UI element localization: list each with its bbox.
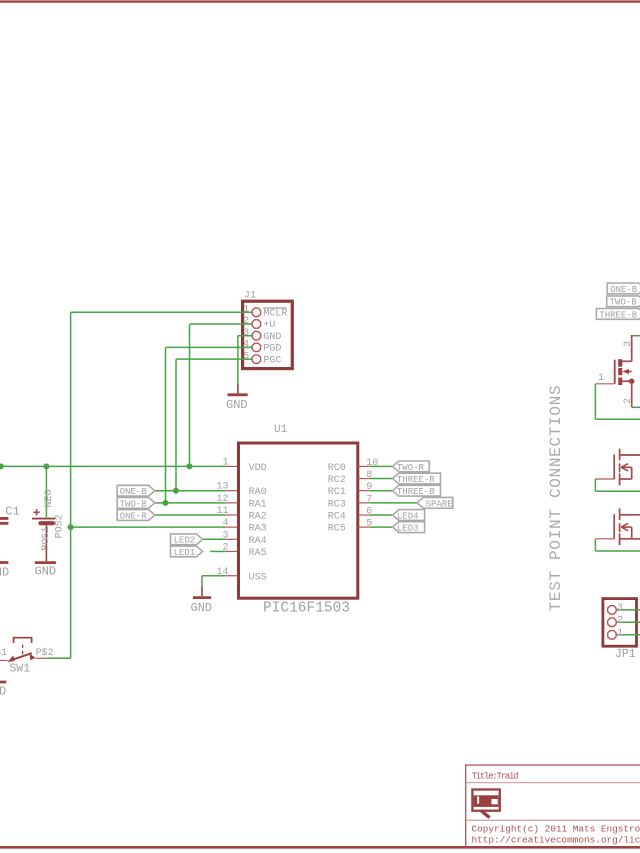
- transistor Q3 gate stub: [595, 538, 614, 540]
- svg-text:RC0: RC0: [328, 463, 346, 474]
- svg-text:PIC16F1503: PIC16F1503: [263, 600, 350, 616]
- net label ONE-B top right: [607, 283, 640, 295]
- J1 pin 4 stub: [244, 346, 252, 348]
- svg-text:1: 1: [598, 373, 604, 384]
- svg-text:LED3: LED3: [397, 524, 419, 534]
- title block divider 2: [466, 819, 640, 821]
- svg-text:P$1: P$1: [0, 647, 7, 659]
- transistor Q2 gate stub: [595, 478, 614, 480]
- net label LED3: [393, 522, 425, 534]
- svg-text:+U: +U: [263, 320, 275, 331]
- svg-text:THREE-B: THREE-B: [397, 487, 435, 497]
- svg-text:RA1: RA1: [249, 499, 267, 510]
- svg-text:JP1: JP1: [615, 648, 636, 661]
- wire VDD rail: [0, 465, 226, 467]
- wire J1 pin3 GND vertical: [237, 336, 239, 384]
- wire TWO-R: [370, 465, 394, 467]
- ground under SW1: [0, 682, 6, 699]
- net label LED2: [171, 534, 203, 546]
- svg-text:PGD: PGD: [263, 344, 281, 355]
- U1 left pin stubs: [226, 465, 237, 467]
- svg-text:Title:Traid: Title:Traid: [472, 771, 519, 781]
- net label THREE-B: [393, 485, 441, 497]
- svg-text:9: 9: [366, 482, 372, 493]
- net label TWO-B: [117, 497, 155, 509]
- switch SW1 actuator dashed link: [22, 645, 24, 657]
- wire J1 pin4 PGD horizontal: [166, 346, 252, 348]
- svg-text:RA0: RA0: [249, 487, 267, 498]
- J1 pin pads 1-5: [252, 308, 260, 316]
- junction VDD rail left: [0, 463, 4, 469]
- wire J1 pin1 MCLR: [71, 311, 252, 313]
- switch SW1 stub left: [0, 660, 8, 662]
- switch SW1 wire right: [46, 657, 70, 659]
- wire J1 pin5 PGC horizontal: [176, 358, 252, 360]
- IC U1 box PIC16F1503: [239, 443, 358, 598]
- svg-text:http://creativecommons.org/lic: http://creativecommons.org/licenses/by-s…: [472, 835, 640, 846]
- svg-text:C1: C1: [5, 504, 19, 518]
- transistor Q3 channel segments: [619, 508, 621, 520]
- junction MCLR RA3: [68, 524, 74, 530]
- svg-text:2: 2: [617, 616, 623, 627]
- svg-text:GND: GND: [0, 566, 9, 580]
- connector JP1 box: [603, 599, 637, 647]
- transistor Q1 drain bar: [618, 359, 622, 367]
- svg-text:LED2: LED2: [174, 536, 196, 546]
- transistor Q3 gate line: [613, 514, 615, 539]
- transistor Q2 drain wire: [620, 454, 640, 456]
- svg-text:POS1: POS1: [41, 527, 52, 551]
- svg-text:3: 3: [617, 603, 623, 614]
- svg-text:10: 10: [366, 458, 378, 469]
- wire MCLR net J1.1 to SW1 vertical: [70, 312, 72, 658]
- svg-text:J1: J1: [244, 289, 257, 301]
- battery positive lead: [45, 466, 47, 517]
- junction PGD TWO-B: [163, 500, 169, 506]
- title block divider 1: [466, 782, 640, 784]
- ground under U1 USS: [191, 587, 213, 616]
- wire J1 pin3 GND horizontal: [238, 335, 252, 337]
- svg-text:RC3: RC3: [328, 499, 346, 510]
- wire THREE-R: [370, 478, 394, 480]
- battery plus sign: [34, 509, 40, 515]
- battery plates: [32, 519, 55, 524]
- svg-text:MCLR: MCLR: [263, 309, 287, 320]
- net label TWO-B top right: [607, 296, 640, 308]
- transistor Q1 source lead: [631, 381, 633, 407]
- switch SW1 stub right: [36, 657, 46, 659]
- svg-text:SW1: SW1: [9, 663, 30, 676]
- svg-text:LED1: LED1: [174, 548, 196, 558]
- transistor Q2 bulk lead: [631, 467, 633, 479]
- wire J1 pin2 +U vertical: [189, 324, 191, 466]
- net label THREE-R: [393, 473, 441, 485]
- battery negative lead: [45, 525, 47, 561]
- svg-text:8: 8: [366, 470, 372, 481]
- svg-text:TWO-B: TWO-B: [120, 499, 148, 509]
- svg-text:RA3: RA3: [249, 524, 267, 535]
- svg-text:VDD: VDD: [249, 463, 267, 474]
- svg-text:3: 3: [623, 341, 634, 347]
- svg-text:GND: GND: [226, 398, 248, 412]
- svg-text:2: 2: [243, 316, 249, 327]
- transistor Q1 drain connect: [622, 360, 631, 362]
- wire RA3 row: [71, 526, 226, 528]
- svg-text:1: 1: [243, 305, 249, 316]
- svg-text:6: 6: [366, 507, 372, 518]
- transistor Q2 gate line: [613, 455, 615, 480]
- wire LED1 row: [210, 550, 226, 552]
- transistor Q2 channel segments: [619, 449, 621, 461]
- J1 pin 2 stub: [244, 323, 252, 325]
- transistor Q3 drain wire: [620, 514, 640, 516]
- svg-text:RC1: RC1: [328, 487, 346, 498]
- wire USS to GND horizontal: [202, 575, 226, 577]
- wire J1 pin5 PGC vertical: [175, 359, 177, 491]
- transistor Q2 gate wire: [594, 479, 596, 491]
- switch SW1 contact right: [30, 654, 36, 660]
- svg-text:ONE-B: ONE-B: [610, 285, 638, 295]
- capacitor C1: [0, 504, 20, 523]
- svg-text:4: 4: [243, 340, 249, 351]
- wire SPARE: [370, 502, 418, 504]
- svg-text:1: 1: [617, 628, 623, 639]
- wire J1 pin2 +U horizontal: [190, 323, 252, 325]
- J1 pin 5 stub: [244, 358, 252, 360]
- svg-text:POS2: POS2: [54, 514, 65, 538]
- svg-text:ONE-B: ONE-B: [120, 487, 148, 497]
- svg-text:LED4: LED4: [397, 511, 419, 521]
- net label SPARE: [417, 497, 453, 509]
- svg-text:5: 5: [243, 351, 249, 362]
- transistor Q1 gate wire vertical: [594, 384, 596, 419]
- svg-text:SPARE: SPARE: [426, 499, 453, 509]
- J1 MCLR overline: [263, 307, 287, 309]
- switch SW1 actuator bracket: [13, 638, 33, 643]
- wire J1 pin4 PGD vertical: [165, 347, 167, 502]
- transistor Q3 source tick: [619, 539, 621, 545]
- title block frame: [465, 765, 640, 847]
- svg-text:GND: GND: [0, 685, 6, 699]
- svg-text:3: 3: [243, 328, 249, 339]
- junction J1 pin2 to VDD rail: [187, 463, 193, 469]
- transistor Q1 drain wire: [632, 335, 640, 337]
- svg-text:PGC: PGC: [263, 355, 281, 366]
- transistor Q1 source connect: [622, 380, 631, 382]
- ground under J1: [226, 384, 248, 412]
- svg-text:U1: U1: [274, 424, 288, 436]
- logo smallroomlabs: [472, 790, 499, 818]
- svg-text:RA5: RA5: [249, 548, 267, 559]
- junction Q1 source bulk: [629, 379, 634, 384]
- svg-text:NEG: NEG: [44, 489, 55, 507]
- wire ONE-R row: [155, 514, 226, 516]
- net label LED4: [393, 510, 425, 522]
- J1 pin 3 stub: [244, 335, 252, 337]
- switch SW1 contact left: [7, 655, 14, 662]
- svg-text:TEST POINT CONNECTIONS: TEST POINT CONNECTIONS: [547, 385, 565, 611]
- svg-text:RA4: RA4: [249, 536, 267, 547]
- transistor Q1 body bar: [618, 368, 622, 375]
- ground under battery: [35, 563, 57, 579]
- page border top: [0, 0, 640, 2]
- junction PGC ONE-B: [173, 488, 179, 494]
- svg-text:THREE-R: THREE-R: [397, 475, 435, 485]
- JP1 wires: [617, 609, 640, 611]
- svg-text:Copyright(c) 2011 Mats Engstro: Copyright(c) 2011 Mats Engstrom: [472, 824, 640, 835]
- transistor Q2 bulk arrow: [621, 464, 628, 468]
- wire LED2 row: [203, 538, 226, 540]
- svg-text:RA2: RA2: [249, 512, 267, 523]
- transistor Q3 bulk arrow: [621, 524, 628, 528]
- transistor Q1 source bar: [618, 378, 622, 386]
- net label THREE-B top right: [596, 309, 640, 321]
- transistor Q2 source tick: [619, 479, 621, 485]
- svg-text:RC4: RC4: [328, 512, 346, 523]
- svg-text:ONE-R: ONE-R: [120, 511, 148, 521]
- transistor Q3 source bar: [620, 538, 640, 540]
- JP1 pin pads: [608, 606, 616, 614]
- svg-text:RC2: RC2: [328, 475, 346, 486]
- transistor Q1 bulk arrow: [623, 369, 629, 374]
- connector J1 box: [243, 301, 293, 368]
- transistor Q1 gate line: [614, 360, 616, 384]
- svg-text:2: 2: [623, 398, 634, 404]
- wire LED4: [370, 514, 394, 516]
- svg-text:TWO-B: TWO-B: [610, 298, 638, 308]
- svg-text:GND: GND: [263, 332, 281, 343]
- page border bottom: [0, 846, 640, 849]
- wire THREE-B: [370, 490, 394, 492]
- wire USS to GND vertical: [201, 576, 203, 587]
- J1 pin 1 stub: [244, 311, 252, 313]
- net label LED1: [171, 546, 203, 558]
- switch SW1 lever: [11, 653, 32, 660]
- ground under C1: [0, 563, 9, 580]
- U1 right pin stubs: [358, 465, 370, 467]
- transistor Q2 source bar: [620, 478, 632, 480]
- svg-text:TWO-R: TWO-R: [397, 463, 425, 473]
- svg-text:GND: GND: [191, 601, 213, 615]
- svg-text:5: 5: [366, 519, 372, 530]
- svg-text:GND: GND: [35, 565, 57, 579]
- transistor Q1 source wire: [632, 406, 640, 408]
- transistor Q1 gate stub: [595, 383, 614, 385]
- svg-text:RC5: RC5: [328, 524, 346, 535]
- wire LED3: [370, 526, 394, 528]
- svg-text:P$2: P$2: [36, 647, 54, 659]
- transistor Q1 bulk connect: [629, 371, 632, 373]
- svg-text:USS: USS: [249, 572, 267, 583]
- net label TWO-R: [393, 461, 430, 473]
- net label ONE-R: [117, 510, 155, 522]
- transistor Q1 drain lead: [631, 335, 633, 361]
- wire TWO-B row: [155, 502, 226, 504]
- transistor Q3 bulk lead: [631, 527, 633, 539]
- junction battery positive: [43, 463, 49, 469]
- svg-text:THREE-B: THREE-B: [599, 310, 637, 320]
- svg-text:7: 7: [366, 494, 372, 505]
- net label ONE-B: [117, 485, 155, 497]
- transistor Q3 gate wire: [594, 539, 596, 551]
- transistor Q1 gate wire horizontal: [595, 418, 640, 420]
- wire ONE-B row: [155, 490, 226, 492]
